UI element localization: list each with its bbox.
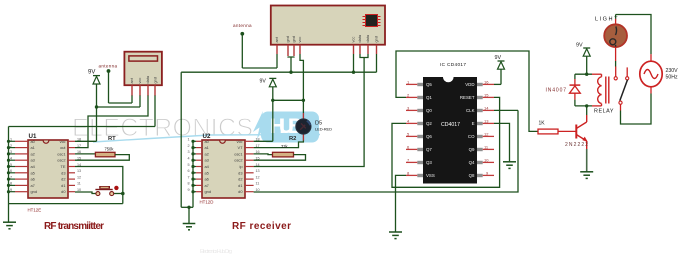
wire: lamp top rail to AC [616,15,651,55]
module RX (RF receiver module) [271,6,385,57]
svg-text:osc1: osc1 [57,151,65,156]
svg-text:a1: a1 [31,145,35,150]
svg-text:LED-RED: LED-RED [315,127,332,132]
svg-text:Q0: Q0 [426,108,432,113]
wire: RX ant pin to antenna line [276,54,278,68]
wire: U1 bottom ground rail [9,203,123,205]
wire: Q1 to top rail to 1K [396,51,538,131]
svg-text:11: 11 [77,182,81,186]
svg-text:15: 15 [484,92,489,97]
IC CD4017 body [423,62,477,184]
wire: 1K to transistor base [558,130,576,132]
svg-text:IN4007: IN4007 [546,88,567,94]
ground 4017 [389,232,402,239]
U1 pin labels [31,139,38,194]
IC U1 HT12E body [28,133,69,213]
svg-text:d3: d3 [61,170,65,175]
ground U2 [183,224,196,230]
wire: U2 d0 to 4017 CLK [254,110,518,192]
svg-text:data: data [145,75,150,83]
resistor RT 750k [95,136,116,157]
svg-text:Q7: Q7 [426,147,432,152]
svg-text:CLK: CLK [466,108,475,113]
wire: emitter down to ground [586,149,588,171]
svg-text:gnd: gnd [153,77,158,84]
wire: 9V to TX vcc horizontal [97,106,141,108]
svg-text:ElectronicsHub.Org: ElectronicsHub.Org [200,249,232,255]
node: LED column dot [302,99,305,102]
node: U1 bus junction dots [7,140,10,194]
wire: AC bottom to switch [621,94,652,125]
wire: U2 left bus [192,141,194,207]
svg-text:VT: VT [238,145,244,150]
svg-text:9V: 9V [260,79,267,85]
wire: collector up to relay rail [586,106,588,115]
svg-text:17: 17 [256,144,260,148]
svg-text:a5: a5 [205,170,209,175]
wire: U1 ground drop [8,204,10,222]
U2 pin numbers [188,138,190,192]
wire: TX gnd pin drop [154,95,156,127]
svg-text:IC CD4017: IC CD4017 [440,62,466,67]
svg-text:18: 18 [77,138,81,142]
svg-text:10: 10 [484,157,489,162]
svg-text:Q1: Q1 [426,95,432,100]
lamp LIGHT [595,15,627,67]
svg-text:d3: d3 [238,170,242,175]
svg-text:9: 9 [188,188,190,192]
node: bottom rail dot [585,104,588,107]
svg-text:R2: R2 [289,136,296,142]
svg-text:RT: RT [108,136,116,142]
svg-text:antenna: antenna [99,63,118,68]
svg-text:9V: 9V [576,43,583,49]
wire: RX left vcc pin jog to LED column [300,54,303,113]
power 9V TX arrow [88,70,100,142]
wire: TX vcc pin drop [139,95,141,107]
wire: VSS to ground [396,175,407,231]
svg-text:11: 11 [256,182,260,186]
svg-text:gnd: gnd [374,36,379,43]
svg-text:12: 12 [256,175,260,179]
svg-text:RF transmiitter: RF transmiitter [44,221,104,232]
svg-text:osc2: osc2 [57,158,65,163]
CD4017 pin pads and stubs [417,83,482,177]
node: right vcc dot on rail [352,71,355,74]
svg-text:13: 13 [484,118,489,123]
watermark ELECTRONICS HUB [72,111,320,255]
wire: U2 bus to ground drop [181,206,193,208]
wire: E pin to its ground [494,123,510,161]
svg-text:14: 14 [484,105,489,110]
wire: R2 to osc2 loop [254,155,306,161]
wire: VDD connect [494,83,501,85]
svg-text:gnd: gnd [285,36,290,43]
svg-text:CD4017: CD4017 [441,122,460,128]
svg-text:8: 8 [10,182,12,186]
svg-text:5: 5 [10,163,12,167]
svg-text:out: out [60,145,66,150]
wire: U1 left ground bus vertical [8,127,10,204]
wire: RX data pins bridge and drop to U2 ip [360,54,368,58]
ground U1 [3,222,16,229]
resistor 1K [538,120,558,134]
wire: 9V to LED column horizontal [273,99,304,101]
U2 pin stubs [196,141,254,191]
U1 pin stubs and bus dots [15,141,75,191]
wire: RX gnd pins bridge and drop [288,56,294,59]
wire: U1 left pins to bus [9,141,16,191]
svg-text:data: data [357,34,362,42]
svg-text:D5: D5 [315,120,322,126]
wire: Q2 to RESET loop [392,97,500,187]
svg-text:17: 17 [77,144,81,148]
svg-text:a7: a7 [31,183,35,188]
svg-text:9V: 9V [495,55,502,61]
svg-text:gnd: gnd [31,189,38,194]
node: top rail dot [585,73,588,76]
svg-text:osc2: osc2 [234,158,242,163]
svg-text:3: 3 [10,150,12,154]
diode D1 IN4007 [546,74,581,106]
svg-text:Q6: Q6 [426,134,432,139]
wire: TX ant pin drop [131,95,133,103]
svg-text:5: 5 [188,163,190,167]
svg-text:gnd: gnd [205,189,212,194]
svg-text:Q9: Q9 [469,147,475,152]
svg-text:a1: a1 [205,145,209,150]
svg-text:2N2222: 2N2222 [565,142,588,148]
CD4017 pin numbers [407,79,410,175]
svg-text:vcc: vcc [237,139,243,144]
svg-text:3: 3 [188,150,190,154]
svg-text:a2: a2 [205,151,209,156]
svg-text:vcc: vcc [297,37,302,43]
power 9V RX arrow [260,78,277,141]
svg-text:osc1: osc1 [234,151,242,156]
svg-text:data: data [365,34,370,42]
svg-text:a7: a7 [205,183,209,188]
module TX (RF transmitter module) [124,52,161,96]
svg-text:gnd: gnd [291,36,296,43]
svg-text:RESET: RESET [460,95,475,100]
svg-text:CO: CO [468,134,475,139]
svg-text:d1: d1 [238,183,242,188]
AC source 230V [640,54,678,93]
node: U2 bus dots [191,140,194,194]
node: RX 9V dot [271,99,274,102]
svg-text:1: 1 [188,138,190,142]
svg-text:vcc: vcc [137,78,142,84]
transistor Q1 2N2222 [576,115,586,149]
svg-text:VSS: VSS [426,173,435,178]
svg-text:HT12E: HT12E [28,208,42,213]
svg-text:a3: a3 [31,158,35,163]
svg-text:a3: a3 [205,158,209,163]
antenna TX [99,63,133,103]
wire: CLK pin stub to drop [494,109,518,111]
svg-text:8: 8 [188,182,190,186]
svg-text:1: 1 [10,138,12,142]
svg-text:d1: d1 [61,183,65,188]
svg-text:2: 2 [10,144,12,148]
svg-text:TE: TE [61,164,66,169]
IC U2 HT12D body [200,133,246,204]
U1 pin numbers [10,138,12,192]
wire: RT to osc2 loop [75,155,129,161]
svg-text:12: 12 [77,175,81,179]
svg-text:7: 7 [10,175,12,179]
svg-text:d2: d2 [61,177,65,182]
svg-text:4: 4 [10,157,12,161]
svg-text:VDD: VDD [465,82,474,87]
svg-text:E: E [472,121,475,126]
ground E pin [503,162,516,169]
svg-text:7: 7 [188,175,190,179]
svg-text:12: 12 [484,131,489,136]
wire: U2 osc1 to R2 [254,153,273,156]
power 9V relay arrow [576,43,590,75]
svg-text:6: 6 [188,169,190,173]
svg-text:4: 4 [188,157,190,161]
power 9V 4017 arrow [495,55,505,84]
svg-text:RELAY: RELAY [594,109,614,115]
svg-text:Q2: Q2 [426,121,432,126]
wire: U1 osc1 to RT [75,153,95,155]
svg-text:16: 16 [484,79,489,84]
svg-text:ip: ip [239,164,242,169]
wire: button to ground rail [114,193,123,195]
svg-text:antenna: antenna [233,23,252,28]
svg-text:a5: a5 [31,170,35,175]
svg-text:RF receiver: RF receiver [232,221,291,232]
relay switch contacts [614,67,629,111]
svg-text:13: 13 [256,169,260,173]
svg-text:18: 18 [256,138,260,142]
svg-text:Q3: Q3 [426,160,432,165]
wire: relay top rail [575,73,592,75]
svg-text:ant: ant [129,77,134,83]
wire: ground rail left drop to U2 ground [180,72,182,207]
wire: U2 vcc connect [254,140,273,142]
wire: U1 d0 to button [75,192,96,194]
wire: relay bottom rail [575,105,592,107]
svg-text:33k: 33k [281,144,289,149]
relay RL1 coil [598,74,609,106]
svg-text:a6: a6 [31,177,35,182]
svg-text:14: 14 [256,163,260,167]
wire: U1 TE to ground rail [75,167,123,204]
resistor R2 33k [273,136,297,157]
svg-text:d2: d2 [238,177,242,182]
svg-text:13: 13 [77,169,81,173]
svg-text:Q8: Q8 [469,173,475,178]
wire: RX right gnd pin drop to rail end [376,54,378,72]
svg-text:vcc: vcc [60,139,66,144]
wire: TX data line [75,95,148,148]
node: 9V junction dot [95,105,98,108]
node: TE/button junction dot [121,192,125,196]
push button [95,186,118,196]
svg-text:HT12D: HT12D [200,199,214,204]
ground emitter [580,172,593,179]
svg-text:2: 2 [188,144,190,148]
svg-text:750k: 750k [105,146,115,151]
antenna RX [233,23,277,68]
wire: U1 vcc connect [75,140,97,142]
svg-text:vcc: vcc [351,37,356,43]
U2 pin labels [205,139,212,194]
svg-text:50Hz: 50Hz [666,75,679,81]
node: gnd bridge dot on rail [289,71,292,74]
svg-text:a2: a2 [31,151,35,156]
svg-text:230V: 230V [666,68,679,74]
svg-text:9: 9 [10,188,12,192]
svg-text:a6: a6 [205,177,209,182]
svg-text:1K: 1K [539,120,546,126]
wire: RX right vcc pin drop [353,54,355,72]
wire: TX gnd line horizontal [9,126,156,128]
svg-text:Q4: Q4 [469,160,475,165]
svg-text:Q5: Q5 [426,82,432,87]
LED D5 [296,113,332,141]
CD4017 pin labels [426,82,435,178]
svg-text:6: 6 [10,169,12,173]
wire: LED cathode to U2 VT [254,141,304,148]
svg-text:ant: ant [274,36,279,42]
wire: ground rail horizontal [181,71,376,73]
svg-text:9V: 9V [88,70,95,76]
